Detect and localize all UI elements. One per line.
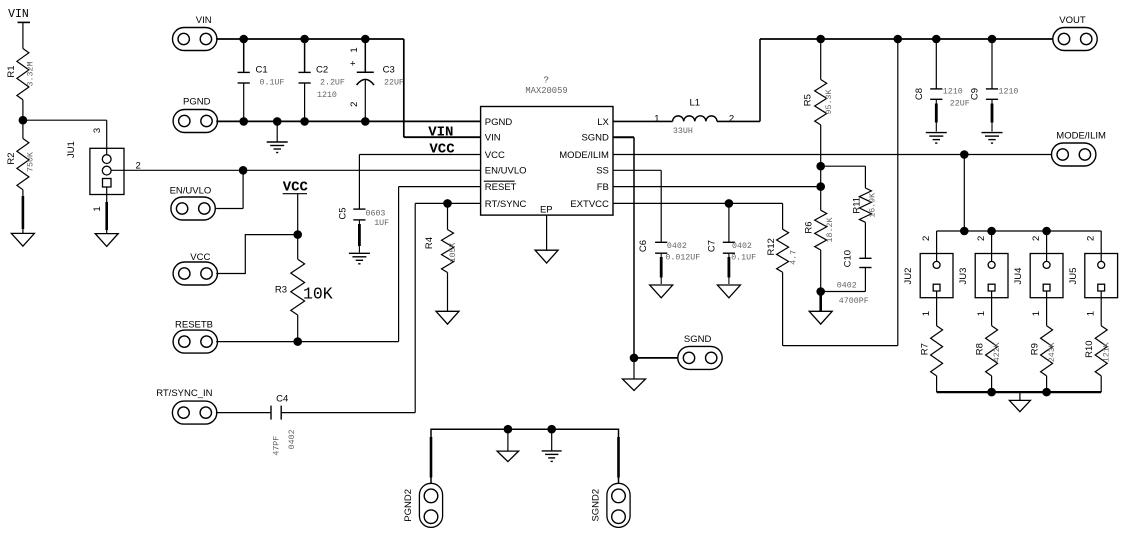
svg-text:RT/SYNC_IN: RT/SYNC_IN [156,388,212,399]
wire SGND from chip [613,136,634,138]
svg-text:VIN: VIN [485,133,501,144]
svg-text:C10: C10 [843,250,854,267]
node PGND/C3 [361,117,370,126]
node junction R1/R2/JU1 [19,116,28,125]
svg-text:0.1UF: 0.1UF [731,253,756,262]
svg-text:VCC: VCC [283,179,309,195]
node VOUT/C9 [988,35,997,44]
svg-text:2: 2 [1031,236,1042,241]
connector MODE/ILIM [1052,143,1096,166]
svg-text:2: 2 [1085,236,1096,241]
svg-text:4.7: 4.7 [790,250,799,265]
svg-text:1210: 1210 [999,88,1019,97]
svg-text:0402: 0402 [837,282,857,291]
svg-text:0.1UF: 0.1UF [260,79,285,88]
svg-text:22UF: 22UF [384,79,404,88]
node FB [816,182,825,191]
wire RESETB riser to RESET pin [398,187,400,342]
svg-text:4700PF: 4700PF [839,297,869,306]
connector RESETB [173,330,217,353]
capacitor C4 47PF 0402 [216,394,415,456]
svg-text:1: 1 [1085,311,1096,316]
wire junction to JU1 pin 3 [23,119,107,121]
svg-text:R2: R2 [6,152,17,164]
ground (C5) [349,252,370,254]
node PGND/gnd [273,117,282,126]
svg-text:1UF: 1UF [374,219,389,228]
wire EN/UVLO net [111,169,481,171]
svg-text:105K: 105K [449,243,458,263]
svg-text:JU5: JU5 [1068,268,1079,285]
node EXTVCC/C7 [725,199,734,208]
wire VCC to chip [359,154,480,156]
connector VCC [173,262,217,285]
svg-text:2: 2 [349,102,360,107]
node VCC/R3 [293,230,302,239]
jumper JU3 [958,231,1008,298]
ground (C9) [982,132,1003,134]
svg-text:C8: C8 [914,88,925,100]
wire VCC connector to R3 [216,235,298,274]
capacitor C7 0.1UF 0402 [707,203,757,284]
net flag VIN (input divider) [8,8,30,49]
svg-text:?: ? [543,75,549,86]
capacitor C1 0.1UF [238,39,285,121]
svg-text:EN/UVLO: EN/UVLO [485,166,527,177]
wire VIN drop to chip pin [403,39,405,137]
connector PGND [173,110,217,133]
jumper JU4 [1013,231,1063,298]
wire SGND to connector [634,357,678,359]
node VOUT/R12 riser [894,35,903,44]
node MODE/ILIM [960,150,969,159]
svg-text:1: 1 [654,114,659,125]
resistor R5 95.3K [802,39,834,166]
svg-text:3: 3 [92,128,103,133]
svg-text:422K: 422K [993,342,1002,362]
ground (R4) [436,311,459,324]
connector VIN [173,28,217,51]
svg-text:MODE/ILIM: MODE/ILIM [1056,131,1106,142]
jumper JU2 [903,231,953,298]
svg-text:L1: L1 [690,98,701,109]
node rail/triangle ground [504,425,513,434]
node VIN/C2 [300,35,309,44]
ground (EP) [535,250,558,263]
wire R5 node to R11 [821,165,866,167]
wire VIN rail [216,38,404,40]
wire SGND ground stub [633,358,635,379]
svg-text:R7: R7 [919,343,930,355]
ground (C8) [926,132,947,134]
svg-text:0.012UF: 0.012UF [665,253,700,262]
wire R2 bottom [22,190,24,234]
svg-text:JU3: JU3 [958,268,969,285]
resistor R12 4.7 [766,203,799,345]
svg-text:121K: 121K [1103,342,1112,362]
svg-text:16.9K: 16.9K [868,193,877,218]
wire R1 to R2 junction [22,100,24,120]
ground (C7) [717,285,740,298]
svg-text:2: 2 [729,114,734,125]
svg-text:243K: 243K [1048,342,1057,362]
capacitor C10 4700PF 0402 [821,250,872,306]
svg-text:R9: R9 [1029,343,1040,355]
resistor R2 750K [6,120,35,189]
svg-text:VIN: VIN [196,15,212,26]
svg-text:JU1: JU1 [66,141,77,158]
capacitor C2 2.2UF 1210 [299,39,345,121]
inductor L1 33UH [673,98,717,137]
node jumper rail JU3 [987,227,996,236]
svg-text:0402: 0402 [288,429,297,449]
wire MODE/ILIM to jumper rail [963,155,965,232]
connector RT/SYNC_IN [172,401,216,424]
op-amp U1 MAX20059 [481,75,613,216]
node rail/earth ground [547,425,556,434]
svg-text:2: 2 [921,236,932,241]
svg-text:0402: 0402 [732,242,752,251]
svg-text:LX: LX [597,117,609,128]
svg-text:RESETB: RESETB [175,320,213,331]
svg-text:PGND2: PGND2 [403,489,414,522]
capacitor C6 0.012UF 0402 [638,240,700,284]
svg-text:1: 1 [349,47,360,52]
svg-text:C4: C4 [276,394,288,405]
connector SGND2 [607,483,630,527]
node R5/R11 [816,162,825,171]
resistor R7 [919,326,942,392]
node RT/SYNC/R4 [443,199,452,208]
svg-text:R10: R10 [1084,340,1095,357]
node PGND/C1 [239,117,248,126]
svg-text:C2: C2 [316,65,328,76]
svg-text:C9: C9 [970,88,981,100]
svg-text:MODE/ILIM: MODE/ILIM [559,150,609,161]
connector VOUT [1053,28,1097,51]
svg-text:R4: R4 [424,237,435,249]
resistor R8 422K [974,326,1002,392]
svg-text:JU2: JU2 [903,268,914,285]
svg-text:SGND2: SGND2 [590,489,601,522]
wire LX to L1 [613,120,673,122]
node RESETB/R3 [293,337,302,346]
wire divider ground stub [819,292,822,311]
capacitor C9 1210 [970,39,1019,132]
svg-text:R6: R6 [803,221,814,233]
wire SS net [613,169,661,171]
ground (C6) [650,285,673,298]
svg-text:0603: 0603 [366,209,386,218]
ground (R2) [11,233,34,246]
svg-text:1210: 1210 [943,88,963,97]
node bottom rail R8 [987,388,996,397]
wire JU5 to R10 [1100,291,1102,326]
wire bottom rail ground stub [1019,392,1021,400]
svg-text:MAX20059: MAX20059 [525,86,567,96]
node VIN/C1 [239,35,248,44]
resistor R3 10K [275,235,333,342]
svg-text:C6: C6 [638,240,649,252]
svg-text:10K: 10K [303,284,333,303]
svg-text:C3: C3 [383,65,395,76]
ground (jumper rail) [1009,400,1030,411]
svg-text:R8: R8 [974,343,985,355]
ground (PGND rail) [276,121,278,141]
node VOUT/R5 [816,35,825,44]
ground triangle (rail) [497,451,518,462]
wire EXTVCC net [613,202,783,204]
pin RESET overline [484,180,515,182]
svg-text:R5: R5 [802,94,813,106]
svg-text:R1: R1 [6,65,17,77]
svg-text:PGND: PGND [183,97,211,108]
svg-text:3.32M: 3.32M [26,62,35,87]
node R6/C10 ground [816,287,825,296]
wire RT/SYNC net [415,202,480,204]
ground (divider) [809,311,832,324]
svg-text:33UH: 33UH [673,127,693,136]
svg-text:C7: C7 [707,240,718,252]
svg-text:1210: 1210 [317,91,337,100]
ground earth (rail) [542,450,562,452]
resistor R1 3.32M [6,49,35,100]
wire earth ground stub [551,429,553,450]
svg-text:VCC: VCC [485,150,505,161]
svg-text:EXTVCC: EXTVCC [570,199,609,210]
wire R12 to VOUT riser [783,345,898,347]
svg-text:C1: C1 [256,65,268,76]
node SGND [630,354,639,363]
svg-text:2.2UF: 2.2UF [320,79,345,88]
svg-text:SGND: SGND [684,334,712,345]
wire RESETB net [216,341,398,343]
svg-text:EP: EP [540,205,553,216]
svg-text:0402: 0402 [667,242,687,251]
resistor R10 121K [1084,326,1112,392]
wire L1 to VOUT rail [717,120,760,122]
svg-text:22UF: 22UF [950,99,970,108]
wire jumper bottom rail [937,391,1102,393]
svg-text:VOUT: VOUT [1059,15,1086,26]
svg-text:VCC: VCC [190,252,210,263]
svg-text:SGND: SGND [581,133,609,144]
svg-text:47PF: 47PF [273,436,282,456]
wire jumper top rail [937,230,1102,232]
node bottom rail R9 [1042,388,1051,397]
capacitor C5 1UF 0603 [338,155,389,253]
wire JU4 to R9 [1046,291,1048,326]
resistor R11 16.9K [851,166,877,258]
svg-text:R12: R12 [766,238,777,255]
svg-text:1: 1 [1031,311,1042,316]
wire PGND2/SGND2 rail [431,429,619,483]
wire JU1 pin1 to ground [106,187,108,234]
wire triangle ground stub [507,429,509,451]
ground (JU1) [95,234,118,247]
net flag VCC (pull-up) [283,179,309,234]
wire R5 node to FB node [820,166,822,186]
svg-text:C5: C5 [338,207,349,219]
node PGND/C2 [300,117,309,126]
svg-text:R11: R11 [851,197,862,214]
ground (SGND) [623,379,646,391]
connector SGND [678,346,722,369]
svg-text:1: 1 [92,206,103,211]
svg-text:1: 1 [976,311,987,316]
resistor R4 105K [424,203,458,311]
wire MODE/ILIM net [613,154,1052,156]
connector EN/UVLO [171,197,215,220]
connector PGND2 [419,483,442,527]
wire RT/SYNC drop to C4 [414,203,416,412]
svg-text:+: + [348,60,359,66]
svg-text:1: 1 [921,311,932,316]
svg-text:RT/SYNC: RT/SYNC [485,199,527,210]
jumper JU1 [66,141,124,194]
svg-text:PGND: PGND [485,117,513,128]
svg-text:SS: SS [596,166,609,177]
svg-text:RESET: RESET [485,182,517,193]
node VIN/C3 [361,35,370,44]
capacitor C8 22UF 1210 [914,39,970,132]
wire JU3 to R8 [991,291,993,326]
wire FB to chip [613,186,821,188]
wire EN/UVLO connector drop [242,170,244,208]
resistor R6 18.2K [803,187,835,292]
node jumper rail JU4 [1042,227,1051,236]
wire PGND2 drop thick part [430,437,433,478]
wire PGND rail to chip [216,120,480,122]
wire EP to ground [546,215,548,250]
svg-text:2: 2 [976,236,987,241]
wire JU2 to R7 [936,291,938,326]
svg-text:VIN: VIN [428,124,453,140]
svg-text:EN/UVLO: EN/UVLO [170,186,212,197]
svg-text:18.2K: 18.2K [826,218,835,243]
node VOUT/C8 [932,35,941,44]
jumper JU5 [1068,231,1118,298]
capacitor C3 22UF polarized [348,39,404,121]
svg-text:VCC: VCC [429,141,455,157]
svg-text:R3: R3 [275,285,287,296]
resistor R9 243K [1029,326,1057,392]
svg-text:750K: 750K [26,152,35,172]
node EN/UVLO [239,166,248,175]
svg-text:VIN: VIN [8,8,29,21]
svg-text:95.3K: 95.3K [825,90,834,115]
node jumper rail/riser [960,227,969,236]
svg-text:JU4: JU4 [1013,268,1024,285]
svg-text:FB: FB [597,182,609,193]
